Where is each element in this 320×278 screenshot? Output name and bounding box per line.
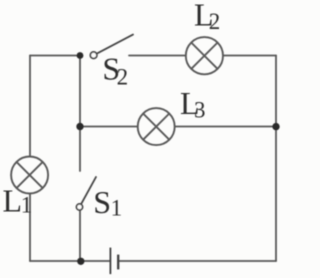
- svg-text:3: 3: [194, 98, 206, 123]
- wire left side upper (above L1): [29, 56, 31, 157]
- wire L3 branch right: [175, 126, 276, 128]
- wire S2 right contact to L2: [129, 55, 186, 57]
- lamp L1: [11, 157, 48, 194]
- label L3: [180, 85, 206, 123]
- switch S1: [76, 177, 96, 210]
- battery: short plate (negative): [117, 255, 119, 270]
- wire L3 branch left: [80, 126, 138, 128]
- wire bottom right of battery: [120, 260, 277, 262]
- label S1: [93, 184, 122, 221]
- label L2: [194, 0, 220, 34]
- lamp L3: [138, 108, 175, 145]
- svg-text:S: S: [93, 184, 111, 220]
- junction dot top (node A): [77, 52, 84, 59]
- junction dot right (node C): [272, 123, 279, 130]
- label L1: [3, 182, 33, 218]
- wire bottom left of battery: [30, 260, 110, 262]
- lamp L2: [186, 37, 223, 74]
- svg-text:L: L: [3, 182, 23, 218]
- junction dot bottom (node D): [77, 258, 84, 265]
- label S2: [102, 50, 128, 89]
- junction dot middle (node B): [76, 123, 83, 130]
- wire right side: [275, 56, 277, 262]
- wire middle branch lower (S1 to bottom junction): [79, 211, 81, 261]
- svg-text:1: 1: [111, 195, 123, 220]
- battery: long plate (positive): [109, 248, 111, 275]
- wire middle branch upper (junction to S1 contact): [79, 56, 81, 172]
- wire top-left segment: [30, 55, 80, 57]
- switch S2: [90, 35, 133, 59]
- wire left side lower (below L1): [29, 193, 31, 261]
- svg-text:2: 2: [209, 9, 221, 34]
- svg-text:2: 2: [117, 65, 129, 90]
- wire L2 to top-right corner: [223, 55, 276, 57]
- svg-text:1: 1: [21, 193, 33, 218]
